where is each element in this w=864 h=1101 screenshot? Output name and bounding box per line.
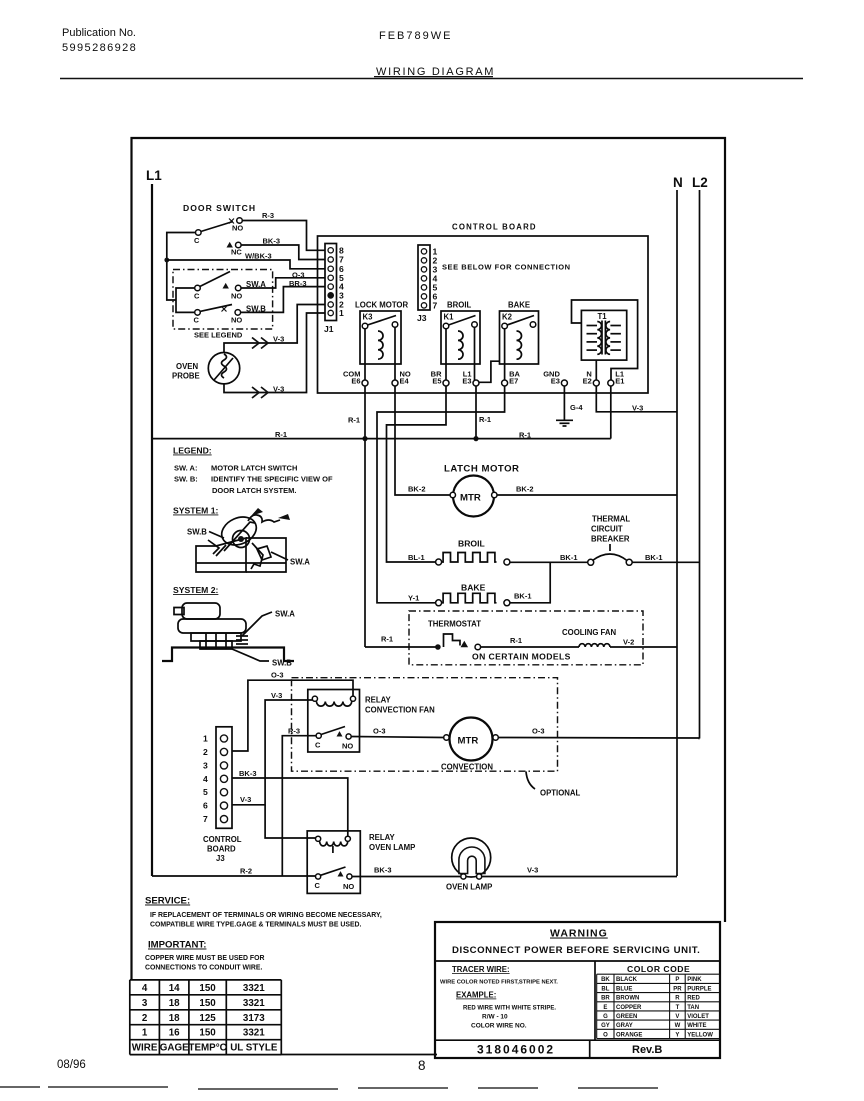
svg-text:Publication No.: Publication No. <box>62 27 136 39</box>
svg-text:TRACER WIRE:: TRACER WIRE: <box>452 965 510 974</box>
svg-text:COOLING FAN: COOLING FAN <box>562 628 617 637</box>
svg-text:COLOR WIRE NO.: COLOR WIRE NO. <box>471 1023 527 1030</box>
system 1 SW.A callout <box>271 552 310 567</box>
wire W/BK-3 (to J1 pin 6) <box>167 260 325 269</box>
svg-text:COPPER WIRE MUST BE USED FOR: COPPER WIRE MUST BE USED FOR <box>145 955 264 962</box>
svg-text:R-1: R-1 <box>519 430 531 439</box>
svg-text:BK-1: BK-1 <box>514 592 532 601</box>
terminal L1 E1 <box>608 370 625 387</box>
svg-text:E1: E1 <box>615 377 624 386</box>
svg-text:CONTROL BOARD: CONTROL BOARD <box>452 223 537 232</box>
wire SW.A/SW.B common <box>176 288 195 312</box>
svg-text:WIRE: WIRE <box>132 1043 158 1054</box>
wire V-3 (probe bottom to J1 pin 1) <box>224 313 325 393</box>
svg-text:W/BK-3: W/BK-3 <box>245 252 272 261</box>
connector J1 <box>324 244 344 335</box>
svg-text:BR: BR <box>601 996 610 1002</box>
wire O-3 (SW.A NO to J1 pin 5) <box>241 278 325 288</box>
svg-text:4: 4 <box>142 983 148 994</box>
optional callout <box>526 772 535 790</box>
svg-text:T: T <box>676 1005 680 1011</box>
switch SW.B <box>194 305 267 325</box>
svg-text:MTR: MTR <box>458 736 479 747</box>
svg-text:1: 1 <box>339 308 344 318</box>
svg-text:R/W - 10: R/W - 10 <box>482 1014 508 1021</box>
svg-text:MOTOR LATCH SWITCH: MOTOR LATCH SWITCH <box>211 464 297 473</box>
svg-text:BAKE: BAKE <box>461 583 486 593</box>
thermostat dashed box <box>409 611 643 665</box>
wire NO E4 to latch motor <box>395 386 450 495</box>
connector J3 (control board top) <box>417 245 438 323</box>
wire L2 drop to motor line (corner handled by L2 bus) <box>699 738 700 740</box>
svg-text:BREAKER: BREAKER <box>591 535 630 544</box>
svg-text:P: P <box>675 977 679 983</box>
svg-text:2: 2 <box>203 747 208 757</box>
wire L1 bus (left vertical) <box>151 184 153 876</box>
svg-text:O: O <box>603 1032 608 1038</box>
svg-text:E2: E2 <box>583 377 592 386</box>
svg-text:150: 150 <box>199 1028 216 1039</box>
oven probe <box>172 353 240 384</box>
svg-text:COLOR CODE: COLOR CODE <box>627 964 690 974</box>
svg-text:W: W <box>675 1023 681 1029</box>
latch motor <box>444 464 520 517</box>
svg-text:T1: T1 <box>598 312 608 321</box>
wire oven lamp relay NO to lamp (BK-3) <box>352 876 461 878</box>
svg-text:SYSTEM 2:: SYSTEM 2: <box>173 585 219 595</box>
svg-text:R-1: R-1 <box>275 430 287 439</box>
wire V-3 (probe top to J1 pin 2) <box>224 305 325 353</box>
svg-text:C: C <box>194 236 200 245</box>
svg-text:R-1: R-1 <box>348 416 360 425</box>
svg-text:BL: BL <box>601 986 609 992</box>
svg-text:3: 3 <box>142 998 148 1009</box>
wire broil to breaker <box>510 561 588 563</box>
relay K3 lock motor <box>355 301 409 381</box>
svg-text:PURPLE: PURPLE <box>687 986 711 992</box>
svg-text:E6: E6 <box>351 377 360 386</box>
relay convection fan <box>308 690 360 753</box>
svg-text:C: C <box>315 881 321 890</box>
relay K2 bake <box>500 301 539 381</box>
svg-text:E3: E3 <box>551 377 560 386</box>
svg-text:CONNECTIONS TO CONDUIT WIRE.: CONNECTIONS TO CONDUIT WIRE. <box>145 965 262 972</box>
svg-text:V-3: V-3 <box>273 385 284 394</box>
svg-text:PROBE: PROBE <box>172 372 200 381</box>
svg-text:IDENTIFY THE SPECIFIC VIEW OF: IDENTIFY THE SPECIFIC VIEW OF <box>211 475 333 484</box>
wire V-3 J3 pin6 to relay coils <box>232 700 312 805</box>
svg-text:7: 7 <box>433 300 438 310</box>
svg-text:5995286928: 5995286928 <box>62 42 137 54</box>
tracer wire cell <box>440 965 558 1030</box>
svg-text:LEGEND:: LEGEND: <box>173 446 212 456</box>
svg-text:SW.A: SW.A <box>290 558 310 567</box>
wire R-1 bus <box>152 438 611 440</box>
system 2 latch drawing <box>162 603 294 661</box>
wire O-3 J3 pin2 to convection relay coil <box>232 680 353 751</box>
svg-text:DOOR LATCH SYSTEM.: DOOR LATCH SYSTEM. <box>212 486 296 495</box>
svg-text:C: C <box>194 316 200 325</box>
svg-text:CIRCUIT: CIRCUIT <box>591 525 623 534</box>
svg-text:ORANGE: ORANGE <box>616 1032 642 1038</box>
svg-text:THERMAL: THERMAL <box>592 515 630 524</box>
svg-text:OPTIONAL: OPTIONAL <box>540 789 581 798</box>
terminal N E2 <box>583 370 600 387</box>
svg-text:O-3: O-3 <box>532 727 545 736</box>
dashed box door latch switches <box>173 270 273 330</box>
svg-text:3321: 3321 <box>243 1028 265 1039</box>
svg-text:GREEN: GREEN <box>616 1014 637 1020</box>
svg-text:NO: NO <box>231 292 242 301</box>
wire cooling fan to N <box>610 646 677 648</box>
svg-text:BK-2: BK-2 <box>516 485 534 494</box>
svg-text:R: R <box>675 996 680 1002</box>
svg-text:SW.A: SW.A <box>275 610 295 619</box>
svg-text:OVEN LAMP: OVEN LAMP <box>446 883 492 892</box>
svg-text:SW. B:: SW. B: <box>174 475 198 484</box>
wire GND E3 to ground <box>563 386 565 420</box>
svg-text:R-2: R-2 <box>240 867 252 876</box>
terminal BR E5 <box>431 370 449 387</box>
svg-text:DOOR SWITCH: DOOR SWITCH <box>183 203 256 213</box>
svg-text:MTR: MTR <box>460 493 481 504</box>
svg-text:J3: J3 <box>417 313 427 323</box>
terminal L1 E3 <box>462 370 479 387</box>
svg-text:C: C <box>315 741 321 750</box>
svg-text:BR-3: BR-3 <box>289 279 307 288</box>
terminal NO E4 <box>392 370 411 387</box>
svg-text:EXAMPLE:: EXAMPLE: <box>456 991 496 1000</box>
relay K1 broil <box>441 301 480 381</box>
motor convection <box>441 718 498 772</box>
svg-text:14: 14 <box>169 983 180 994</box>
svg-text:E3: E3 <box>462 377 471 386</box>
broil element <box>436 539 510 566</box>
svg-text:SW.B: SW.B <box>272 659 292 668</box>
svg-text:PINK: PINK <box>687 977 702 983</box>
color code table <box>597 964 720 1039</box>
svg-text:7: 7 <box>203 814 208 824</box>
svg-text:2: 2 <box>142 1013 148 1024</box>
svg-text:WIRE COLOR NOTED FIRST,STRIPE: WIRE COLOR NOTED FIRST,STRIPE NEXT. <box>440 980 558 986</box>
header rule <box>60 78 803 80</box>
thermal circuit breaker <box>588 515 633 566</box>
svg-text:RELAY: RELAY <box>369 833 396 842</box>
svg-text:OVEN LAMP: OVEN LAMP <box>369 843 415 852</box>
svg-text:3321: 3321 <box>243 998 265 1009</box>
svg-text:NC: NC <box>231 248 242 257</box>
svg-text:3173: 3173 <box>243 1013 265 1024</box>
svg-text:18: 18 <box>169 1013 180 1024</box>
terminal BA E7 <box>502 370 521 387</box>
wire R-3 convection relay C down to lamp line <box>282 736 316 876</box>
svg-text:R-3: R-3 <box>288 727 300 736</box>
svg-text:TEMP°C: TEMP°C <box>188 1043 226 1054</box>
svg-text:Y-1: Y-1 <box>408 594 419 603</box>
warning box <box>435 922 720 1058</box>
junction dot E3 on R-1 bus <box>473 436 478 441</box>
terminal COM E6 <box>343 370 368 387</box>
svg-text:ON CERTAIN MODELS: ON CERTAIN MODELS <box>472 652 571 662</box>
svg-text:COPPER: COPPER <box>616 1005 642 1011</box>
svg-text:R-1: R-1 <box>510 636 522 645</box>
wire BA E7 to bake element <box>377 386 505 603</box>
svg-text:E4: E4 <box>400 377 410 386</box>
ground G-4 <box>556 420 573 426</box>
svg-text:SERVICE:: SERVICE: <box>145 896 190 907</box>
svg-text:COMPATIBLE WIRE TYPE.GAGE & TE: COMPATIBLE WIRE TYPE.GAGE & TERMINALS MU… <box>150 922 362 929</box>
svg-text:WHITE: WHITE <box>687 1023 706 1029</box>
svg-text:NO: NO <box>231 316 242 325</box>
svg-text:LATCH MOTOR: LATCH MOTOR <box>444 464 520 475</box>
svg-text:CONVECTION FAN: CONVECTION FAN <box>365 706 435 715</box>
svg-text:Y: Y <box>675 1032 679 1038</box>
wire L1 to oven lamp relay C (R-2) <box>152 875 316 877</box>
thermostat <box>428 620 481 650</box>
svg-text:CONVECTION: CONVECTION <box>441 763 493 772</box>
svg-text:BK: BK <box>601 977 610 983</box>
svg-text:IF REPLACEMENT OF TERMINALS OR: IF REPLACEMENT OF TERMINALS OR WIRING BE… <box>150 912 382 919</box>
system 2 SW.B callout <box>232 649 292 668</box>
svg-text:BK-1: BK-1 <box>560 553 578 562</box>
svg-text:THERMOSTAT: THERMOSTAT <box>428 620 481 629</box>
wire BR-3 (SW.B NO to J1 pin 4) <box>241 287 325 313</box>
svg-text:LOCK MOTOR: LOCK MOTOR <box>355 301 409 310</box>
svg-text:V-3: V-3 <box>271 691 282 700</box>
diagram border frame <box>132 138 726 1055</box>
svg-text:150: 150 <box>199 983 216 994</box>
svg-text:L2: L2 <box>692 175 708 190</box>
svg-text:SW.B: SW.B <box>187 528 207 537</box>
svg-text:BAKE: BAKE <box>508 301 530 310</box>
svg-text:K3: K3 <box>363 313 374 322</box>
svg-text:YELLOW: YELLOW <box>687 1032 713 1038</box>
optional dashed box <box>292 678 558 772</box>
svg-text:J3: J3 <box>216 854 225 863</box>
oven lamp <box>446 838 492 892</box>
wire R-1 feed into thermostat <box>365 646 438 648</box>
svg-text:NO: NO <box>232 224 243 233</box>
terminal GND E3 <box>543 370 567 387</box>
svg-text:BROWN: BROWN <box>616 996 639 1002</box>
svg-text:150: 150 <box>199 998 216 1009</box>
svg-text:IMPORTANT:: IMPORTANT: <box>148 940 206 951</box>
svg-text:SW. A:: SW. A: <box>174 464 197 473</box>
wire COM E6 down to thermostat feed <box>364 386 366 647</box>
svg-text:6: 6 <box>203 801 208 811</box>
svg-text:4: 4 <box>203 774 208 784</box>
svg-text:BLUE: BLUE <box>616 986 632 992</box>
wire L1 E3 up into bake relay <box>479 361 500 382</box>
svg-text:BK-2: BK-2 <box>408 485 426 494</box>
svg-text:UL STYLE: UL STYLE <box>230 1043 278 1054</box>
svg-text:E7: E7 <box>509 377 518 386</box>
svg-text:SEE LEGEND: SEE LEGEND <box>194 331 243 340</box>
wire convection relay NO to motor <box>351 737 444 738</box>
svg-text:G: G <box>603 1014 608 1020</box>
bake element <box>436 583 510 606</box>
control board box <box>318 236 649 393</box>
svg-text:O-3: O-3 <box>271 671 284 680</box>
connector chevrons upper V-3 <box>252 338 268 349</box>
svg-text:PR: PR <box>673 986 682 992</box>
wire gauge table <box>130 980 281 1055</box>
svg-text:VIOLET: VIOLET <box>687 1014 709 1020</box>
svg-text:8: 8 <box>418 1058 426 1073</box>
svg-text:BK-3: BK-3 <box>239 769 257 778</box>
transformer T1 <box>572 300 638 380</box>
svg-text:1: 1 <box>142 1028 148 1039</box>
svg-text:318046002: 318046002 <box>477 1043 555 1057</box>
svg-text:BROIL: BROIL <box>447 301 471 310</box>
svg-text:BL-1: BL-1 <box>408 553 425 562</box>
wire BK-3 J3 pin4 to oven lamp relay coil <box>232 778 348 836</box>
svg-text:08/96: 08/96 <box>57 1059 86 1071</box>
svg-text:V-3: V-3 <box>632 404 643 413</box>
system 1 latch drawing <box>196 508 290 572</box>
svg-text:J1: J1 <box>324 324 334 334</box>
svg-text:BK-3: BK-3 <box>374 866 392 875</box>
wire thermostat to cooling fan <box>481 646 579 648</box>
connector chevrons lower V-3 <box>252 387 268 398</box>
svg-text:V-3: V-3 <box>527 866 538 875</box>
wire L1 E3 down to R-1 bus <box>475 386 477 439</box>
svg-text:CONTROL: CONTROL <box>203 835 242 844</box>
svg-text:5: 5 <box>203 787 208 797</box>
svg-text:RED: RED <box>687 996 700 1002</box>
svg-text:GAGE: GAGE <box>160 1043 189 1054</box>
wire L1 E1 down to R-1 bus <box>610 386 612 439</box>
relay oven lamp <box>307 831 360 894</box>
svg-text:3: 3 <box>203 760 208 770</box>
svg-text:K1: K1 <box>444 313 455 322</box>
svg-text:RELAY: RELAY <box>365 696 392 705</box>
svg-text:BK-1: BK-1 <box>645 553 663 562</box>
wire R-3 (door NO to J1 pin 8) <box>242 221 325 251</box>
svg-text:L1: L1 <box>146 168 162 183</box>
svg-text:TAN: TAN <box>687 1005 699 1011</box>
svg-text:BOARD: BOARD <box>207 845 236 854</box>
svg-text:SYSTEM 1:: SYSTEM 1: <box>173 506 219 516</box>
svg-text:NO: NO <box>343 882 354 891</box>
svg-text:E: E <box>603 1005 607 1011</box>
switch SW.A <box>194 272 266 301</box>
svg-text:WARNING: WARNING <box>550 928 608 940</box>
svg-text:N: N <box>673 175 683 190</box>
svg-text:V-3: V-3 <box>273 335 284 344</box>
svg-text:G-4: G-4 <box>570 403 583 412</box>
wire N E2 to neutral (V-3) <box>596 386 677 412</box>
junction dot W/BK-3 tap <box>164 258 169 263</box>
switch door C-NC contact <box>227 242 243 257</box>
svg-text:BK-3: BK-3 <box>263 237 281 246</box>
svg-text:O-3: O-3 <box>373 727 386 736</box>
system 2 SW.A callout <box>242 610 295 637</box>
svg-text:BLACK: BLACK <box>616 977 638 983</box>
wire L2 bus (vertical) <box>699 190 701 739</box>
system 1 SW.B callout <box>187 528 224 539</box>
svg-text:V: V <box>675 1014 679 1020</box>
svg-text:1: 1 <box>203 734 208 744</box>
switch door C-NO (upper) <box>194 218 243 245</box>
svg-text:R-3: R-3 <box>262 211 274 220</box>
svg-text:Rev.B: Rev.B <box>632 1044 662 1056</box>
svg-text:E5: E5 <box>432 377 441 386</box>
svg-text:GRAY: GRAY <box>616 1023 633 1029</box>
wire convection motor to L2 <box>498 737 699 740</box>
svg-text:OVEN: OVEN <box>176 362 198 371</box>
svg-text:C: C <box>194 292 200 301</box>
svg-text:SEE BELOW FOR CONNECTION: SEE BELOW FOR CONNECTION <box>442 263 571 272</box>
wire BR E5 to broil element <box>387 386 447 562</box>
svg-text:18: 18 <box>169 998 180 1009</box>
svg-text:3321: 3321 <box>243 983 265 994</box>
svg-text:16: 16 <box>169 1028 180 1039</box>
wire door switch common to L-feed <box>167 233 196 301</box>
footer scan edge line <box>0 1087 658 1089</box>
svg-text:V-2: V-2 <box>623 638 634 647</box>
svg-text:DISCONNECT POWER BEFORE SERVIC: DISCONNECT POWER BEFORE SERVICING UNIT. <box>452 945 700 956</box>
svg-text:FEB789WE: FEB789WE <box>379 30 452 42</box>
svg-text:NO: NO <box>342 742 353 751</box>
svg-text:RED WIRE WITH WHITE STRIPE.: RED WIRE WITH WHITE STRIPE. <box>463 1006 556 1012</box>
svg-text:R-1: R-1 <box>479 415 491 424</box>
junction dot E6 on R-1 bus <box>362 436 367 441</box>
connector J3 (control board, lower) <box>203 727 232 829</box>
wire oven lamp to N (V-3) <box>482 876 677 878</box>
wire bake to breaker junction <box>510 562 550 603</box>
cooling fan coil <box>562 628 617 647</box>
wire BK-3 (door NC to J1 pin 7) <box>241 245 325 260</box>
wire latch motor to N <box>497 494 677 496</box>
wire breaker to L2 <box>632 561 699 563</box>
svg-text:K2: K2 <box>502 313 513 322</box>
svg-text:125: 125 <box>199 1013 216 1024</box>
wire N bus (vertical) <box>676 190 678 876</box>
svg-text:V-3: V-3 <box>240 795 251 804</box>
svg-text:BROIL: BROIL <box>458 539 485 549</box>
svg-text:R-1: R-1 <box>381 635 393 644</box>
svg-text:GY: GY <box>601 1023 610 1029</box>
